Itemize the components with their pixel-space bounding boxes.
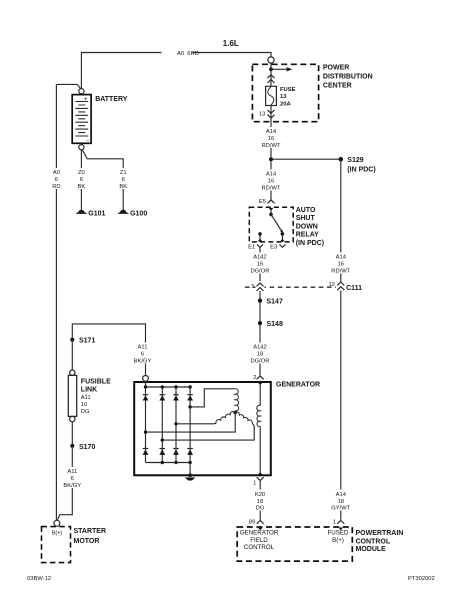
node junction PDC	[269, 67, 273, 71]
svg-text:MODULE: MODULE	[356, 546, 387, 553]
svg-text:RD/WT: RD/WT	[262, 143, 281, 149]
svg-text:A0 6RD: A0 6RD	[177, 51, 199, 57]
wire label A142 18 DG/OR	[250, 343, 269, 365]
wire label Z0 6 BK	[73, 168, 89, 190]
svg-text:S171: S171	[79, 337, 95, 344]
wire label Z1 6 BK	[115, 168, 131, 190]
wire Z1 to G100	[82, 150, 123, 211]
wire A11 fusible link branch	[72, 324, 145, 376]
diode D2 top	[159, 395, 165, 401]
connector chevron generator pin 2	[257, 376, 264, 379]
svg-text:RELAY: RELAY	[296, 232, 319, 239]
stator neutral wire	[146, 412, 236, 432]
svg-text:+: +	[84, 97, 88, 103]
svg-text:B(+): B(+)	[52, 530, 63, 536]
field winding	[259, 385, 261, 406]
svg-text:10: 10	[81, 402, 87, 408]
svg-text:6: 6	[122, 177, 125, 183]
wire A0 left rail down to starter	[55, 84, 58, 523]
wire C111 to generator	[259, 291, 261, 376]
connector chevrons C111 pin 12	[336, 280, 345, 291]
stator phase coil C	[235, 412, 252, 423]
svg-text:AUTO: AUTO	[296, 207, 316, 214]
wire S129 right branch to C111	[340, 159, 342, 281]
power distribution center box	[252, 64, 318, 121]
svg-text:S170: S170	[79, 444, 95, 451]
splice S147	[258, 299, 262, 303]
svg-text:GENERATOR: GENERATOR	[240, 530, 279, 537]
connector C111 dashed line	[245, 286, 336, 288]
ground symbol generator case	[185, 478, 196, 481]
connector chevron PCM pin 1	[337, 520, 344, 523]
svg-text:CONTROL: CONTROL	[356, 538, 391, 545]
svg-text:E3: E3	[270, 244, 277, 250]
svg-text:1.6L: 1.6L	[223, 39, 239, 48]
bridge rail 2	[161, 387, 163, 463]
svg-text:A11: A11	[81, 395, 91, 401]
wire label A14 16 RD/WT	[262, 170, 281, 192]
splice S170	[70, 444, 74, 448]
label powertrain control module	[356, 530, 404, 553]
battery negative terminal circle	[79, 145, 84, 150]
svg-text:03BW-12: 03BW-12	[27, 576, 51, 582]
splice S129	[271, 158, 341, 160]
diode D3 top	[173, 395, 179, 401]
svg-text:(IN PDC): (IN PDC)	[347, 167, 375, 174]
svg-text:S148: S148	[267, 321, 283, 328]
svg-text:C111: C111	[346, 285, 362, 292]
svg-text:PT302002: PT302002	[408, 576, 435, 582]
svg-text:GENERATOR: GENERATOR	[276, 381, 320, 388]
svg-text:RD/WT: RD/WT	[331, 269, 350, 275]
svg-text:DG: DG	[81, 409, 90, 415]
svg-text:6: 6	[80, 177, 83, 183]
wire rail4 tap to stator	[188, 405, 191, 408]
svg-text:A11: A11	[138, 345, 148, 351]
wire label K20 18 DG	[251, 490, 269, 512]
svg-text:1: 1	[333, 520, 336, 526]
connector chevrons PDC input	[268, 75, 275, 83]
diode D1 top	[143, 395, 149, 401]
svg-text:A14: A14	[266, 172, 277, 178]
diode D6 bottom	[159, 449, 165, 455]
wire label A142 16 DG/OR	[250, 253, 269, 275]
field terminal arrow pin 2	[258, 382, 263, 385]
terminal E1	[258, 232, 262, 236]
svg-text:16: 16	[268, 179, 274, 185]
generator B+ terminal circle	[143, 376, 149, 382]
svg-text:DOWN: DOWN	[296, 223, 318, 230]
svg-text:SHUT: SHUT	[296, 215, 316, 222]
wire label A11 6 BK/GY riser	[134, 343, 153, 365]
PCM pin 1 arrow	[338, 528, 343, 531]
diode bridge bottom bus	[146, 462, 191, 464]
bridge rail 3	[175, 387, 177, 463]
wire S129 to ASD relay	[270, 159, 272, 199]
connector chevron E5	[268, 200, 275, 204]
wire S170 to starter	[58, 446, 73, 520]
svg-text:A0: A0	[53, 170, 60, 176]
splice S171	[70, 338, 74, 342]
svg-text:Z1: Z1	[120, 170, 127, 176]
connector chevrons C111 pin 5	[256, 281, 265, 292]
node relay common	[269, 213, 273, 217]
relay box ASD	[249, 207, 293, 242]
wire C111 to PCM pin 1	[340, 291, 342, 520]
terminal E5 arrow	[269, 208, 274, 211]
svg-text:16: 16	[338, 262, 344, 268]
svg-text:(IN PDC): (IN PDC)	[296, 240, 324, 247]
svg-text:−: −	[86, 139, 90, 145]
svg-text:MOTOR: MOTOR	[74, 538, 100, 545]
label auto shut down relay	[296, 207, 324, 247]
label generator field control	[240, 530, 279, 551]
bridge rail 4	[189, 387, 191, 463]
generator box	[134, 382, 271, 475]
diode D5 bottom	[143, 449, 149, 455]
svg-text:E5: E5	[259, 199, 266, 205]
diode D4 top	[187, 395, 193, 401]
stator phase coil B	[216, 411, 235, 423]
diode bridge top bus	[146, 386, 191, 388]
PCM box	[237, 527, 352, 561]
generator case ground stem	[189, 463, 191, 476]
terminal E3	[281, 232, 285, 236]
svg-text:DG/OR: DG/OR	[250, 359, 269, 365]
wire fusible link to S170	[71, 422, 73, 446]
svg-text:B(+): B(+)	[332, 537, 344, 544]
stator centre node	[234, 411, 236, 413]
label fusible link	[81, 379, 111, 416]
label power distribution center	[323, 65, 373, 90]
label fused B+	[328, 530, 350, 544]
svg-text:BATTERY: BATTERY	[95, 96, 128, 103]
svg-text:Z0: Z0	[78, 170, 85, 176]
svg-text:K20: K20	[255, 492, 265, 498]
svg-text:FUSED: FUSED	[328, 530, 350, 537]
wire label A11 6 BK/GY lower	[63, 467, 83, 489]
svg-text:A11: A11	[67, 469, 77, 475]
svg-text:POWER: POWER	[323, 65, 349, 72]
svg-text:DISTRIBUTION: DISTRIBUTION	[323, 73, 373, 80]
svg-text:E1: E1	[248, 244, 255, 250]
wire fuse output	[270, 106, 272, 158]
wire label A0 6RD	[162, 48, 199, 58]
wire label A14 16 RD/WT	[262, 127, 281, 149]
svg-text:13: 13	[280, 94, 287, 100]
splice S148	[258, 321, 262, 325]
svg-text:20A: 20A	[280, 102, 291, 108]
svg-text:18: 18	[338, 499, 344, 505]
svg-text:16: 16	[257, 262, 263, 268]
connector chevron generator pin 1	[257, 477, 264, 480]
fuse value labels	[280, 87, 296, 108]
svg-text:G101: G101	[88, 210, 105, 217]
wire label A14 18 GY/WT	[331, 490, 350, 512]
wire E1 to C111	[259, 252, 261, 282]
svg-text:18: 18	[257, 499, 263, 505]
svg-text:CENTER: CENTER	[323, 82, 352, 89]
svg-text:FUSIBLE: FUSIBLE	[81, 379, 111, 386]
diode D8 bottom	[187, 449, 193, 455]
svg-text:S129: S129	[347, 157, 363, 164]
svg-text:12: 12	[329, 282, 335, 288]
svg-text:FUSE: FUSE	[280, 87, 296, 93]
label starter motor	[74, 528, 107, 545]
svg-text:BK/GY: BK/GY	[134, 359, 152, 365]
wire S171 to fusible link	[71, 340, 73, 370]
svg-text:A142: A142	[253, 255, 267, 261]
starter motor box	[42, 527, 71, 563]
svg-text:1: 1	[253, 480, 256, 486]
svg-text:A142: A142	[253, 345, 267, 351]
ground G101	[78, 210, 85, 214]
svg-text:2: 2	[253, 375, 256, 381]
battery positive terminal circle	[79, 89, 84, 94]
svg-text:RD/WT: RD/WT	[262, 186, 281, 192]
fusible link	[70, 370, 75, 375]
svg-text:DG/OR: DG/OR	[250, 269, 269, 275]
wire K20 generator to PCM	[259, 485, 261, 520]
svg-text:G100: G100	[130, 210, 147, 217]
svg-text:A14: A14	[336, 492, 347, 498]
svg-text:6: 6	[55, 177, 58, 183]
svg-text:CONTROL: CONTROL	[244, 544, 275, 551]
svg-text:5: 5	[251, 284, 254, 290]
wire A0 battery to PDC	[81, 53, 271, 89]
svg-text:18: 18	[257, 352, 263, 358]
PCM pin 89 arrow	[258, 528, 263, 531]
svg-text:89: 89	[249, 520, 255, 526]
diode D7 bottom	[173, 449, 179, 455]
starter terminal circle B+	[54, 520, 60, 526]
svg-text:STARTER: STARTER	[74, 528, 107, 535]
svg-text:BK: BK	[119, 184, 127, 190]
svg-text:A14: A14	[266, 129, 277, 135]
svg-text:13: 13	[259, 111, 265, 117]
wire label A14 16 RD/WT right	[331, 253, 350, 275]
svg-text:RD: RD	[52, 184, 60, 190]
svg-text:A14: A14	[336, 255, 347, 261]
svg-text:6: 6	[71, 476, 74, 482]
field terminal arrow pin 1	[258, 472, 263, 475]
bridge rail 1	[145, 387, 147, 463]
svg-text:LINK: LINK	[81, 387, 97, 394]
wire A0 branch to left rail	[56, 84, 80, 88]
svg-text:BK/GY: BK/GY	[63, 483, 81, 489]
stator phase coil A	[235, 389, 239, 411]
svg-text:FIELD: FIELD	[250, 537, 268, 544]
svg-text:GY/WT: GY/WT	[331, 506, 350, 512]
battery	[72, 95, 91, 144]
relay switch blade	[271, 214, 282, 231]
ground G100	[120, 210, 127, 214]
svg-text:DG: DG	[256, 506, 265, 512]
connector circle PDC input	[268, 57, 274, 63]
fuse 13 20A	[266, 86, 277, 105]
battery plates	[75, 102, 88, 137]
wire PDC internal	[270, 63, 272, 86]
connector chevron PCM pin 89	[257, 520, 264, 523]
wire Z0 to G101	[80, 150, 82, 210]
svg-text:6: 6	[141, 352, 144, 358]
connector chevrons PDC output	[268, 110, 275, 118]
svg-text:POWERTRAIN: POWERTRAIN	[356, 530, 404, 537]
arrow feed in PDC	[271, 68, 287, 70]
svg-text:16: 16	[268, 136, 274, 142]
svg-text:S147: S147	[267, 299, 283, 306]
wire label A0 6 RD	[48, 168, 64, 190]
svg-text:BK: BK	[78, 184, 86, 190]
